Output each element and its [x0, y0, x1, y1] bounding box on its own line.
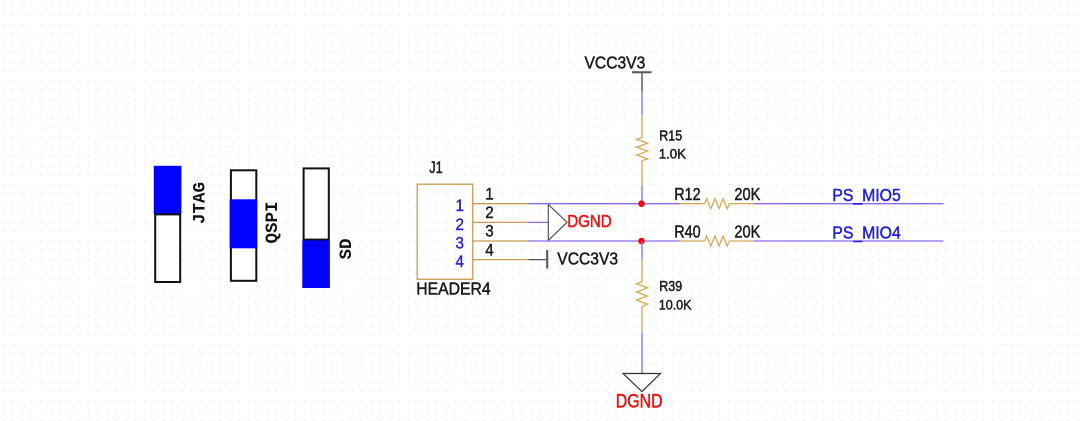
svg-text:10.0K: 10.0K — [659, 297, 692, 313]
svg-text:4: 4 — [456, 254, 465, 272]
svg-text:PS_MIO4: PS_MIO4 — [832, 222, 900, 242]
svg-text:R39: R39 — [659, 278, 682, 294]
svg-text:SD: SD — [337, 238, 357, 259]
svg-text:3: 3 — [456, 235, 465, 253]
svg-text:R15: R15 — [659, 127, 682, 143]
svg-text:4: 4 — [485, 242, 494, 260]
svg-text:2: 2 — [456, 216, 465, 234]
svg-text:20K: 20K — [734, 185, 760, 205]
svg-text:1: 1 — [485, 186, 494, 204]
svg-text:PS_MIO5: PS_MIO5 — [832, 185, 900, 205]
svg-text:R40: R40 — [674, 222, 700, 242]
svg-text:1.0K: 1.0K — [659, 146, 686, 161]
svg-text:R12: R12 — [674, 185, 700, 205]
svg-text:QSPI: QSPI — [263, 201, 283, 243]
svg-text:1: 1 — [456, 198, 465, 216]
svg-text:VCC3V3: VCC3V3 — [585, 53, 646, 73]
svg-text:HEADER4: HEADER4 — [416, 279, 490, 299]
svg-text:JTAG: JTAG — [191, 182, 211, 224]
svg-text:20K: 20K — [734, 222, 760, 242]
svg-text:DGND: DGND — [567, 212, 612, 231]
svg-text:VCC3V3: VCC3V3 — [557, 248, 618, 268]
svg-text:2: 2 — [485, 205, 494, 223]
svg-text:3: 3 — [485, 223, 494, 241]
svg-text:DGND: DGND — [616, 390, 663, 412]
svg-text:J1: J1 — [429, 158, 442, 177]
